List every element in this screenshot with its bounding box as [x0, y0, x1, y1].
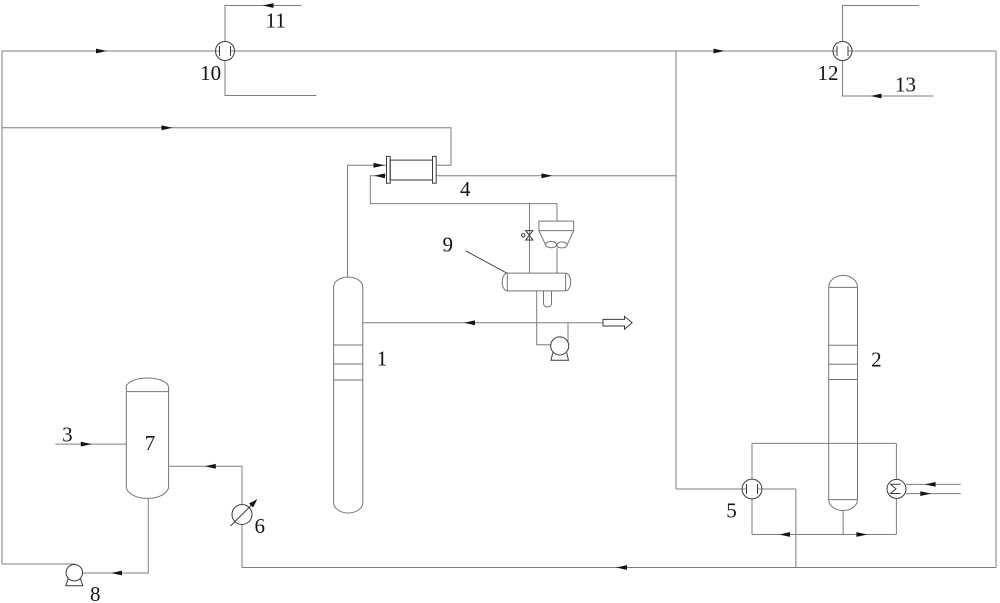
pump 8 — [66, 564, 83, 585]
wire stream 11 branch — [225, 6, 302, 42]
wire main top header line middle segment — [235, 50, 834, 52]
column 1 — [334, 277, 363, 513]
wire exchanger 12 top branch — [843, 6, 920, 42]
wire second header to exchanger 4 — [2, 128, 451, 166]
arrow left on stream 13 — [871, 94, 882, 99]
arrow left on collect line — [779, 532, 790, 537]
wire vessel 7 right inlet from valve 6 — [169, 466, 242, 504]
arrow right into exchanger 4 top — [374, 163, 385, 168]
svg-text:12: 12 — [818, 61, 839, 85]
leader line for label 9 — [466, 251, 507, 273]
wire exchanger 5 bottom drop — [751, 499, 753, 535]
drum 9 — [502, 273, 570, 291]
wire branch below exchanger 10 — [225, 61, 317, 96]
exchanger 10 circle — [216, 42, 235, 61]
svg-text:11: 11 — [265, 9, 285, 33]
wire main top header line left segment — [2, 50, 216, 52]
wire drop from exchanger 5 line to bottom line — [795, 489, 797, 568]
wire hopper outlet to drum 9 — [556, 248, 558, 274]
wire vessel 7 bottoms to pump 8 — [74, 499, 148, 574]
wire stream 3 feed to vessel 7 — [55, 443, 126, 445]
wire long bottom return line — [242, 567, 996, 569]
exchanger 12 circle — [833, 42, 852, 61]
svg-text:13: 13 — [895, 73, 916, 97]
exchanger 4 shell — [387, 156, 437, 183]
wire exchanger 4 shell outlet to right loop — [436, 175, 676, 177]
arrow left into vessel 7 — [205, 464, 216, 469]
svg-text:5: 5 — [726, 499, 737, 523]
wire reboiler utility outlet bottom — [906, 493, 961, 495]
wire reboil header over column 2 — [752, 442, 896, 444]
wire right loop vertical — [675, 51, 677, 489]
wire exchanger 5 outlet right — [762, 488, 796, 490]
arrow left on stream 11 — [263, 3, 274, 8]
wire main top header line right segment — [852, 50, 996, 52]
wire drum 9 outlet to pump — [537, 291, 551, 345]
wire valve 6 outlet down — [241, 525, 243, 568]
svg-text:8: 8 — [90, 582, 101, 603]
arrow right into vessel 7 — [81, 442, 92, 447]
wire column 2 bottoms drop — [842, 511, 844, 535]
arrow left on utility top — [925, 482, 936, 487]
wire column 1 side line to product arrow — [363, 322, 603, 324]
valve on drum feed — [522, 231, 533, 240]
arrow left out of exchanger 4 bottom — [374, 173, 385, 178]
wire reboiler utility inlet top — [906, 483, 961, 485]
column 2 — [829, 275, 858, 510]
svg-text:2: 2 — [871, 347, 882, 371]
wire pump 8 discharge to left border — [2, 563, 75, 565]
arrow right on utility bottom — [920, 491, 931, 496]
svg-text:9: 9 — [443, 233, 454, 257]
wire right loop to exchanger 5 — [676, 488, 742, 490]
hopper feeder — [539, 221, 574, 248]
wire exchanger 4 condensate outlet — [370, 176, 557, 204]
wire valve drop line — [529, 204, 531, 274]
svg-text:3: 3 — [62, 423, 73, 447]
wire hopper feed drop — [556, 204, 558, 222]
wire stream 13 branch — [843, 61, 934, 97]
svg-text:1: 1 — [377, 347, 388, 371]
pump under drum 9 — [551, 337, 569, 360]
arrow left on bottom return line — [616, 565, 627, 570]
arrow right on collect line — [856, 532, 867, 537]
svg-text:10: 10 — [200, 61, 221, 85]
exchanger 5 circle — [742, 479, 762, 499]
wire left border vertical — [1, 51, 3, 564]
svg-text:7: 7 — [145, 431, 156, 455]
arrow right on exchanger 4 outlet — [542, 173, 553, 178]
exchanger 4 right flange — [433, 156, 437, 183]
arrow right on top header left — [96, 49, 107, 54]
hollow product arrow — [603, 316, 632, 329]
arrow left toward column 1 — [464, 320, 475, 325]
wire bottom collect line under column 2 — [752, 534, 896, 536]
exchanger 4 left flange — [387, 156, 391, 183]
arrow left toward pump 8 — [111, 571, 122, 576]
wire column 1 overhead to exchanger 4 — [348, 165, 387, 277]
vessel 7 — [126, 378, 168, 498]
wire pump discharge riser — [567, 323, 569, 345]
svg-text:6: 6 — [254, 514, 265, 538]
wire reboiler bottom drop — [895, 498, 897, 534]
svg-text:4: 4 — [460, 177, 471, 201]
arrow right on top header right — [714, 49, 725, 54]
control valve 6 — [231, 499, 258, 526]
arrow right on second header — [162, 125, 173, 130]
drum 9 bottom nozzle — [544, 291, 552, 307]
wire exchanger 5 top riser — [751, 443, 753, 479]
wire right border vertical — [995, 51, 997, 568]
wire reboiler top riser — [895, 443, 897, 479]
reboiler heater circle — [887, 479, 906, 498]
